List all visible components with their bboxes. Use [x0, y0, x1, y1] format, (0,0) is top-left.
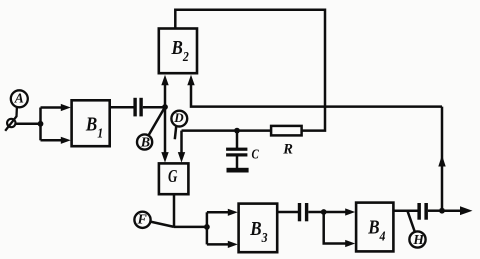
- node D label circle: [171, 111, 187, 127]
- block B2: [159, 29, 197, 74]
- ground bar: [227, 168, 249, 173]
- svg-text:B4: B4: [367, 216, 386, 243]
- node A label circle: [11, 90, 28, 107]
- output node junction: [439, 208, 445, 214]
- wire C to ground: [236, 157, 239, 169]
- wire B3 splitter vertical: [206, 212, 209, 244]
- wire node B up into B2: [164, 84, 167, 107]
- node C junction: [234, 128, 240, 134]
- wire B1 output: [110, 106, 134, 109]
- wire upper branch into B1: [41, 106, 63, 109]
- node F label circle: [134, 212, 150, 228]
- input terminal: [7, 119, 15, 127]
- wire capacitor to output node: [428, 209, 443, 212]
- wire B2 top output: [175, 10, 325, 131]
- wire lower branch into B3: [207, 243, 230, 246]
- block B1: [72, 100, 110, 146]
- capacitor (coupling after B3): [298, 203, 301, 221]
- junction B4 splitter: [321, 209, 327, 215]
- svg-text:G: G: [168, 167, 178, 187]
- wire B3 output: [277, 211, 298, 214]
- junction input splitter: [38, 121, 44, 127]
- capacitor (coupling after B1): [133, 98, 136, 117]
- node B junction: [162, 104, 168, 110]
- block G: [159, 163, 189, 194]
- wire R to corner over G: [182, 129, 272, 132]
- wire output arrow: [442, 209, 462, 212]
- svg-text:A: A: [14, 91, 24, 106]
- block B4: [356, 203, 393, 252]
- wire G output horizontal: [174, 226, 208, 229]
- block B3: [239, 204, 278, 253]
- svg-text:B3: B3: [249, 218, 268, 245]
- svg-text:B: B: [140, 136, 150, 151]
- wire capacitor to B4 splitter: [308, 211, 324, 214]
- node B label circle: [137, 134, 152, 149]
- node A pointer line: [5, 107, 17, 131]
- node F pointer line: [150, 222, 174, 227]
- wire C capacitor lead: [236, 131, 239, 148]
- wire upper branch into B3: [207, 211, 230, 214]
- wire B4 output: [394, 209, 418, 212]
- svg-text:F: F: [137, 212, 148, 227]
- arrow up on feedback vertical: [438, 155, 445, 167]
- svg-text:C: C: [252, 146, 260, 162]
- node H label circle: [409, 231, 425, 247]
- svg-text:B1: B1: [85, 113, 103, 140]
- node B pointer line: [149, 107, 165, 135]
- wire capacitor to node B: [143, 106, 166, 109]
- node H pointer line: [407, 211, 414, 232]
- wire input horizontal: [15, 123, 41, 126]
- wire G output down: [173, 195, 176, 227]
- svg-text:H: H: [412, 232, 424, 247]
- wire node B down into G: [164, 107, 167, 154]
- node D pointer line: [175, 126, 176, 139]
- wire splitter vertical: [39, 108, 42, 141]
- capacitor (coupling after B4): [417, 203, 421, 220]
- wire B4 splitter down branch: [324, 212, 347, 244]
- wire straight arrow into B4: [324, 211, 347, 214]
- wire lower branch into B1: [41, 139, 63, 142]
- svg-text:B2: B2: [171, 37, 190, 64]
- svg-text:R: R: [282, 141, 293, 157]
- wire feedback horizontal into B2: [191, 84, 442, 107]
- svg-text:D: D: [173, 110, 184, 125]
- junction B3 splitter: [204, 224, 210, 230]
- capacitor C: [226, 148, 247, 151]
- resistor R: [271, 126, 302, 135]
- wire corner down into G: [180, 131, 183, 154]
- wire feedback right vertical: [441, 107, 444, 211]
